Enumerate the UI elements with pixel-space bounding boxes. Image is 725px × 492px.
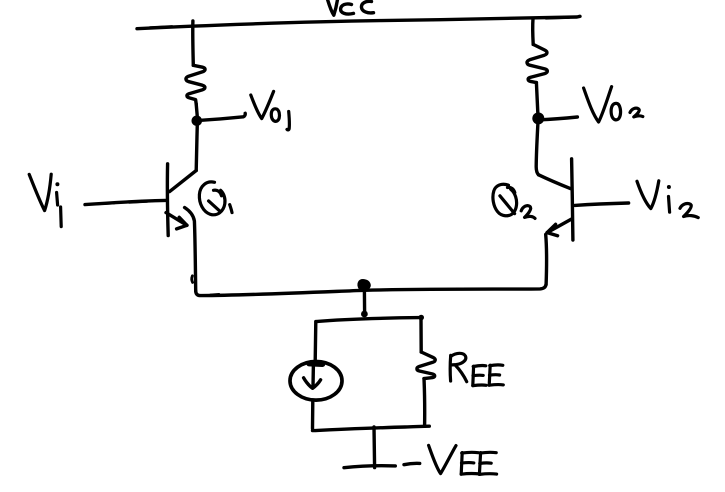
wire (rail overdraw right)	[546, 16, 569, 19]
wire (RC2 to node Vo2)	[536, 83, 537, 113]
transistor Q2 base bar	[572, 159, 573, 240]
current source I	[290, 362, 342, 401]
node dot (box top right)	[418, 315, 424, 321]
wire (junction to current-source box)	[363, 291, 367, 312]
label Vo1	[251, 91, 290, 130]
label REE	[450, 353, 503, 385]
label Q1	[199, 182, 232, 215]
wire (RC1 to node Vo1)	[196, 104, 197, 116]
resistor REE	[417, 352, 435, 379]
wire (node Vo1 to Q1 collector)	[196, 124, 197, 171]
wire (VCC to RC2)	[531, 19, 535, 45]
wire (rail overdraw left)	[150, 26, 172, 27]
wire (box bottom line)	[313, 426, 430, 430]
wire (corner bump)	[190, 276, 194, 283]
wire (Q1 emitter down)	[185, 208, 196, 292]
node VCC rail	[137, 16, 580, 28]
transistor Q2 collector stroke	[539, 175, 571, 189]
wire (rail overdraw tick)	[211, 293, 220, 296]
wire (box top to REE)	[419, 319, 423, 352]
wire (Vi1 to Q1 base)	[85, 200, 166, 204]
resistor RC2	[527, 44, 547, 82]
wire (Q2 emitter down)	[544, 235, 548, 285]
transistor Q1 emitter stroke with arrow	[166, 213, 187, 226]
label Vo2	[584, 87, 643, 122]
transistor Q1 collector stroke	[170, 171, 197, 192]
label Vi2	[637, 181, 698, 218]
wire (VCC to RC1)	[191, 21, 195, 65]
wire (node to Vo2 label)	[540, 117, 577, 120]
wire (to current source top)	[314, 322, 318, 361]
label Vi1	[29, 174, 61, 226]
wire (node Vo2 to Q2 collector)	[536, 122, 538, 175]
wire (Q2 base to Vi2)	[575, 203, 629, 205]
label Q2	[493, 184, 535, 218]
label VCC	[327, 0, 374, 15]
resistor RC1	[186, 65, 205, 104]
node dot (box top)	[361, 311, 368, 318]
label VEE	[429, 445, 497, 474]
wire (box top line)	[316, 318, 420, 322]
node junction knot	[359, 281, 369, 290]
node dot Vo1	[192, 116, 203, 127]
transistor Q1 base bar	[166, 164, 170, 236]
wire (base overdraw marks)	[96, 202, 114, 205]
wire (node to Vo1 label)	[199, 113, 245, 120]
wire (emitter rail)	[196, 285, 546, 296]
ground VEE stem	[372, 427, 376, 468]
transistor Q2 emitter stroke with arrow	[547, 219, 572, 233]
node dot Vo2	[532, 112, 544, 124]
wire (current source bottom)	[311, 400, 315, 429]
wire (REE to box bottom)	[422, 379, 426, 427]
wire (dash to VEE label)	[404, 463, 420, 464]
ground VEE bar	[344, 466, 395, 468]
